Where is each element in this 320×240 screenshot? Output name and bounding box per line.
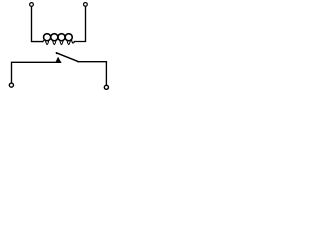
terminal circle top-right: [83, 2, 88, 7]
terminal circle bottom-left: [9, 82, 15, 88]
fixed contact triangle: [56, 57, 62, 62]
wire from bottom-left terminal up and right to fixed contact: [12, 62, 61, 82]
terminal circle bottom-right: [104, 85, 110, 91]
coil loop: [58, 34, 65, 41]
terminal circle top-left: [29, 2, 34, 7]
coil loop bottom tail: [45, 41, 48, 45]
coil loop: [44, 34, 51, 41]
coil exit dip: [71, 40, 74, 43]
coil entry curve: [42, 40, 44, 42]
coil loop bottom tail: [67, 41, 70, 45]
wire from top-left terminal down and right to coil: [32, 7, 43, 42]
switch blade tip blob: [56, 52, 58, 54]
switch blade: [56, 53, 78, 62]
coil loop bottom tail: [60, 41, 63, 45]
coil loop: [51, 34, 58, 41]
coil loop: [65, 34, 72, 41]
coil loop bottom tail: [53, 41, 56, 45]
wire from blade pivot right and down to bottom-right terminal: [78, 62, 106, 85]
wire from coil right to top-right terminal: [74, 7, 85, 42]
